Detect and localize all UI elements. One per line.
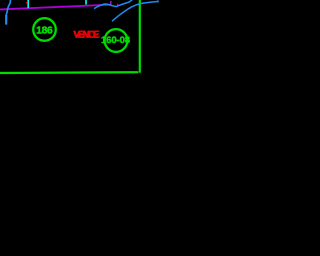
svg-text:VENICE: VENICE	[74, 30, 101, 41]
svg-text:186: 186	[36, 25, 53, 36]
svg-text:160-08: 160-08	[101, 35, 131, 46]
